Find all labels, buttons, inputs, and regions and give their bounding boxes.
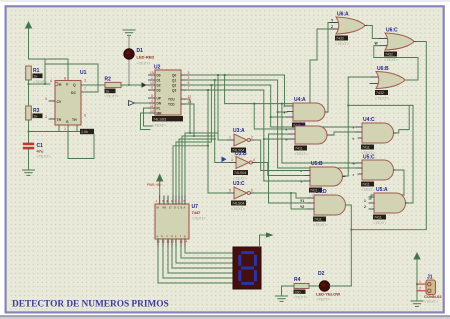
wire tap to U4:D in3 [291,193,308,209]
svg-text:330: 330 [295,290,301,294]
svg-text:U1: U1 [80,70,87,76]
svg-text:47u: 47u [37,149,44,154]
svg-text:7432: 7432 [376,91,384,95]
capacitor C1 [23,143,34,150]
value blob U4:D [313,217,326,222]
svg-text:7411: 7411 [362,183,370,187]
wire U4:A out to U6:A in1 [328,23,336,113]
wire 555 GND hook [68,125,94,159]
connector J1 [426,280,436,295]
svg-text:Q0: Q0 [172,74,176,78]
svg-text:1: 1 [229,136,231,140]
wire U4:B out to U4:C in2 [334,132,356,135]
svg-text:7447: 7447 [192,210,202,215]
value blob U6:C [384,52,397,57]
svg-text:2: 2 [251,136,253,140]
svg-text:U6:A: U6:A [337,12,349,18]
svg-text:6: 6 [84,114,86,118]
junction Q2 ext [270,116,272,118]
svg-text:U3:A: U3:A [233,128,245,134]
junction Q3 ext [263,138,265,140]
svg-text:U5:B: U5:B [311,161,323,167]
wire U3:C out to U4:D in1 [255,193,308,198]
value blob R3 [33,114,43,119]
value blob U4:C [361,145,374,150]
wire R4 to D2 [282,285,320,287]
inverter U3:B [230,157,257,169]
svg-text:1k: 1k [34,114,38,118]
display 7seg [233,247,261,289]
svg-text:U2: U2 [154,65,161,71]
svg-text:13: 13 [188,100,192,104]
svg-text:g: g [284,110,286,114]
svg-text:3: 3 [231,158,233,162]
svg-text:U6:C: U6:C [386,28,398,34]
op 555 timer U1 [55,81,81,126]
svg-text:R4: R4 [294,277,301,283]
wire U5:B out riser to U6:B in1 [343,77,371,176]
svg-text:11: 11 [150,104,154,108]
led D2 [319,281,329,291]
svg-text:<TEXT>: <TEXT> [231,207,246,211]
svg-text:6: 6 [251,189,253,193]
svg-text:2: 2 [45,115,47,119]
value blob R4 [294,290,306,294]
wire seg g staircase [185,247,233,253]
wire U7 feed f5 [173,146,208,196]
svg-text:R2: R2 [105,77,112,83]
junction node R1-R3 [28,83,30,85]
svg-text:C: C [178,207,180,210]
svg-text:J1: J1 [427,275,433,281]
wire TCU down f1 [185,99,190,196]
power arrow J1 [414,253,420,259]
wire D1 top stub [128,35,130,49]
value blob U5:B [309,188,322,193]
value blob U4:B [294,146,307,151]
wire tap to U4:B in1 [254,104,289,129]
wire pin1 red [417,283,426,285]
wire seg c staircase [168,247,233,273]
wire D2 to rail [330,285,352,287]
svg-text:D2: D2 [157,84,161,88]
svg-text:<TEXT>: <TEXT> [137,62,152,66]
svg-text:14: 14 [184,240,188,244]
svg-text:U4:C: U4:C [363,117,375,123]
pin numbers U7 bottom [157,240,188,244]
wire Q2 row [187,84,271,86]
wire TR stub left [49,118,55,120]
wire Q2 drop to U4:A in3 [271,85,287,117]
wire display common top [260,235,267,247]
clock marker UP pin [142,82,147,88]
junction taps on Q rows [207,74,225,91]
svg-text:D: D [174,207,176,210]
value blob C2 node [80,129,94,134]
svg-text:Z: Z [331,25,333,29]
svg-text:1.0k: 1.0k [81,130,88,134]
resistor R2 [105,82,121,87]
svg-text:TCD: TCD [168,103,175,107]
wire VCC stem [28,28,30,59]
value blob U5:A [373,215,386,220]
value blob U6:A [335,36,348,41]
svg-text:4: 4 [151,99,153,103]
junction D2 rail [350,229,352,231]
wire Q1 ext to U5:C in2 [278,112,356,168]
resistor R3 [26,106,32,120]
value blob R2 [105,89,116,94]
svg-text:BI: BI [157,207,160,210]
wire U4:B in2 riser [269,134,290,203]
wire U4:D out to D2 drop [346,205,352,286]
svg-text:LED-YELOW: LED-YELOW [316,292,340,297]
svg-text:74LS93: 74LS93 [153,117,166,121]
svg-text:TH: TH [72,118,77,122]
wire DN stub [135,102,149,104]
svg-text:U4:D: U4:D [315,189,327,195]
wire MR hook [141,113,151,130]
svg-text:DN: DN [157,102,162,106]
svg-text:Q: Q [73,83,76,87]
value blob U3:C [231,201,246,206]
wire U6:C out down right side to D2 rail [351,42,426,230]
value blob U3:A [231,148,246,153]
value blob U6:B [375,90,388,95]
svg-text:15: 15 [180,240,184,244]
wire C1 to ground [28,149,30,170]
led D1 [124,49,134,59]
svg-text:1k: 1k [34,74,38,78]
svg-text:6: 6 [188,81,190,85]
wire D1 bottom stub [128,59,130,85]
or U6:C [380,33,418,50]
svg-text:5: 5 [229,189,231,193]
svg-text:12: 12 [162,240,166,244]
inverter U3:A [228,134,255,146]
wire U4:C out hook [394,105,410,133]
svg-text:<TEXT>: <TEXT> [294,152,309,156]
junction f1 [189,132,191,134]
svg-text:9: 9 [151,86,153,90]
svg-text:<TEXT>: <TEXT> [384,58,399,62]
svg-text:LED-RED: LED-RED [137,55,155,60]
and U5:C [356,160,396,180]
wire VCC rail to 555 pin8 [29,59,69,81]
wire tap to U5:C in1 [282,104,356,163]
or U6:A [330,17,368,34]
wire seg f staircase [181,247,233,258]
svg-text:4: 4 [50,79,52,83]
svg-text:7411: 7411 [362,146,370,150]
wire U6:B out loop to U6:C in2 [374,46,418,80]
wire DC feedback loop [45,59,98,92]
svg-text:D1: D1 [137,48,144,54]
wire seg d staircase [172,247,233,268]
svg-text:1k: 1k [106,89,110,93]
junction V214 f3 [214,138,216,140]
power arrow U7 vcc [157,175,163,197]
svg-text:U3:C: U3:C [233,181,245,187]
svg-text:d: d [301,180,303,184]
svg-text:7411: 7411 [295,147,303,151]
wire seg a staircase [158,247,233,283]
svg-text:1: 1 [364,199,366,203]
wire TH stub [76,125,78,132]
svg-text:R3: R3 [33,108,40,114]
svg-text:5: 5 [151,94,153,98]
svg-text:10: 10 [150,81,154,85]
svg-text:4: 4 [253,158,255,162]
and U4:A [287,103,328,121]
svg-text:11: 11 [167,240,170,244]
or U6:B [370,72,405,89]
svg-text:2: 2 [419,287,421,291]
svg-text:D3: D3 [157,89,161,93]
svg-text:Q2: Q2 [172,84,176,88]
wire f2 right ext [194,135,215,137]
border frame [0,0,450,2]
svg-text:2: 2 [364,205,366,209]
and U4:C [356,123,396,143]
svg-text:D2: D2 [318,271,325,277]
junction f2 [193,135,195,137]
svg-text:8: 8 [64,77,66,81]
svg-text:U5:C: U5:C [363,155,375,161]
svg-text:<TEXT>: <TEXT> [313,223,328,227]
svg-text:10: 10 [171,240,175,244]
wire U6:A out to U6:C in1 [368,26,380,39]
svg-text:Q3: Q3 [172,89,176,93]
svg-text:<TEXT>: <TEXT> [152,124,167,128]
svg-text:Y2: Y2 [300,205,304,209]
wire R2 to counter clk [121,84,149,86]
svg-text:TR: TR [57,118,62,122]
svg-text:7432: 7432 [336,37,344,41]
svg-text:G: G [66,120,69,124]
wire U3:B out to U5:B in2 [257,163,304,176]
junction mid rail [347,105,349,107]
svg-text:7411: 7411 [314,218,322,222]
wire Q2 ext to U4:C in1 [271,117,356,127]
wire U7 feed f3 [179,139,215,196]
pin numbers U7 top [156,199,186,203]
wire inv bundle V211 [176,85,211,196]
wire Q3 drop to U4:B in3 [264,90,289,139]
wire to U4:D in2 [269,202,309,204]
resistor R1 [26,66,32,80]
wire pin2 red [417,290,426,292]
junction TR tap [28,131,30,133]
wire U5:A out riser [409,105,413,203]
svg-text:TCU: TCU [168,98,175,102]
counter U2 74LS93 [149,70,187,116]
ground J1 [411,301,423,306]
wire Q1 row [187,79,278,81]
svg-text:<TEXT>: <TEXT> [37,155,52,159]
marker DN pin [129,101,135,106]
svg-text:PL: PL [157,107,161,111]
svg-text:DC: DC [71,91,76,95]
junction Q1 ext [277,111,279,113]
svg-text:<TEXT>: <TEXT> [316,298,331,302]
svg-text:B: B [181,207,183,210]
resistor R4 [294,284,309,289]
svg-text:2: 2 [188,76,190,80]
svg-text:RB: RB [163,207,167,210]
junction J1 pin1 [416,283,418,285]
value blob U5:C [361,182,374,187]
svg-text:14: 14 [150,109,154,113]
wire Q3 ext to U5:B in3 [264,139,304,181]
and U5:A [369,193,409,213]
wire inv bundle V218 [218,75,228,140]
wire PL hook [144,108,153,126]
svg-text:7: 7 [84,87,86,91]
svg-text:Q1: Q1 [172,79,176,83]
svg-text:<TEXT>: <TEXT> [424,300,439,304]
svg-text:CONN-02: CONN-02 [424,294,442,299]
wire Q0 drop to U4:A in1 [285,75,288,106]
pin numbers counter [150,71,191,113]
svg-text:1: 1 [151,76,153,80]
svg-text:PWR,+88·…: PWR,+88·… [147,183,165,187]
probe marker blue [222,157,227,163]
wire Q0 tap down to OR chain [225,29,336,104]
wire TCD down f2 [182,104,194,196]
svg-text:f: f [284,105,285,109]
svg-text:74LS04: 74LS04 [234,171,246,175]
svg-text:b: b [353,137,355,141]
svg-text:CV: CV [57,100,62,104]
svg-text:U4:A: U4:A [294,97,306,103]
svg-text:Y1: Y1 [300,199,304,203]
wire inv bundle V214 [215,80,230,163]
wire J1 vcc stem [416,259,418,301]
junction D1 tap [128,84,130,86]
svg-text:U5:A: U5:A [376,187,388,193]
value blob 74LS93 [152,116,183,121]
svg-text:1: 1 [64,127,66,131]
wire R3 to C1 [28,120,30,143]
svg-text:1: 1 [419,280,421,284]
inverter U3:C [228,187,255,199]
svg-text:<TEXT>: <TEXT> [361,188,376,192]
svg-text:U6:B: U6:B [377,66,389,72]
wire TR stub [58,125,60,132]
wire CV stub [49,100,55,102]
svg-text:<TEXT>: <TEXT> [105,95,120,99]
svg-text:<TEXT>: <TEXT> [373,221,388,225]
svg-text:15: 15 [150,71,154,75]
and U4:D [308,195,348,215]
svg-text:7432: 7432 [385,53,393,57]
junction U3:C out tap [290,192,292,194]
svg-text:<TEXT>: <TEXT> [233,177,248,181]
svg-text:DETECTOR DE NUMEROS PRIMOS: DETECTOR DE NUMEROS PRIMOS [12,300,169,310]
wire Q3 row [187,89,264,91]
svg-text:13: 13 [157,240,161,244]
svg-text:3: 3 [188,71,190,75]
svg-text:74LS04: 74LS04 [232,202,244,206]
and U5:B [304,167,345,186]
wire seg e staircase [176,247,233,263]
svg-text:U3:B: U3:B [235,151,247,157]
svg-text:7411: 7411 [374,216,382,220]
wire inv bundle V208 [208,90,228,193]
value blob U4:A [292,123,305,128]
and U4:B [289,126,334,144]
wire seg b staircase [163,247,233,278]
ground above D1 [123,30,135,35]
svg-text:<TEXT>: <TEXT> [375,97,390,101]
svg-text:<TEXT>: <TEXT> [192,217,207,221]
value blob U3:B [233,170,248,175]
svg-text:d: d [286,138,288,142]
svg-text:U4:B: U4:B [295,122,306,127]
svg-text:A: A [184,207,186,210]
wire 555 Q output to R2 [81,84,105,86]
wire U5:C out to U5:A in1 [369,170,404,199]
decoder U7 7447 [155,196,189,247]
svg-text:5: 5 [45,97,47,101]
wire ground to R4 [282,286,295,296]
svg-text:D1: D1 [157,79,161,83]
svg-text:D0: D0 [157,74,161,78]
svg-text:R1: R1 [33,68,40,74]
wire TCU f1 right ext [190,132,218,134]
terminal arrow [266,232,274,237]
junction feedback tap [44,83,46,85]
svg-text:MR: MR [157,112,163,116]
junction V208 f5 [207,145,209,147]
wire Q0 row [187,74,285,76]
junctions on r1 rail [253,103,282,105]
ground below C1 [23,170,35,175]
wire TR-TH bottom rail [29,131,84,133]
ground at R4 [276,296,288,301]
wire Q1 drop to U4:A in2 [278,80,287,112]
wire mid rail [348,104,413,106]
power VCC arrow top-left [26,22,32,28]
value blob R1 [33,74,43,79]
svg-text:12: 12 [188,95,192,99]
svg-text:7: 7 [188,86,190,90]
wire R1 to R3 [28,80,30,106]
wire U3:A out to U5:B in1 [255,140,304,171]
svg-text:<TEXT>: <TEXT> [294,296,309,300]
svg-text:<TEXT>: <TEXT> [335,42,350,46]
svg-text:3: 3 [84,79,86,83]
wire junction to 555 reset pin [29,83,51,85]
